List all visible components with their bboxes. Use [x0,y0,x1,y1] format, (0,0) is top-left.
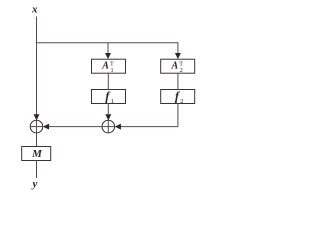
arrowhead into adder S2 from right [115,124,121,130]
adder S1 cross [30,126,43,128]
block f1 [92,90,126,104]
block f2 [161,90,195,104]
wire top horizontal branch [36,42,178,44]
arrowhead into adder S1 from right [43,124,49,130]
svg-text:2: 2 [180,98,183,105]
block M [22,147,51,161]
wire M output [36,161,38,179]
wire f2 down then left to adder S2 [117,104,178,127]
block A2 [161,59,195,73]
wire S2 to S1 [45,126,103,128]
adder S2 circle [102,120,115,133]
wire drop to A2 [177,42,179,54]
arrowhead into adder S2 [105,114,111,120]
arrowhead into adder S1 from top [34,114,40,120]
svg-text:2: 2 [180,67,183,74]
svg-text:1: 1 [111,67,114,74]
svg-text:x: x [31,4,38,16]
svg-text:y: y [31,178,38,190]
adder S1 circle [30,120,43,133]
arrowhead into A1 [105,53,111,59]
wire drop to A1 [107,43,109,55]
wire f1 to adder S2 [107,104,109,116]
svg-text:M: M [31,148,43,160]
svg-text:A: A [171,61,179,72]
arrowhead into A2 [175,53,181,59]
adder S2 cross [102,126,115,128]
block A1 [92,59,126,73]
wire x vertical input [36,17,38,116]
wire A2 to f2 [177,73,179,89]
svg-text:1: 1 [111,98,114,105]
svg-text:A: A [101,61,109,72]
wire A1 to f1 [107,73,109,89]
wire S1 to M [36,133,38,147]
